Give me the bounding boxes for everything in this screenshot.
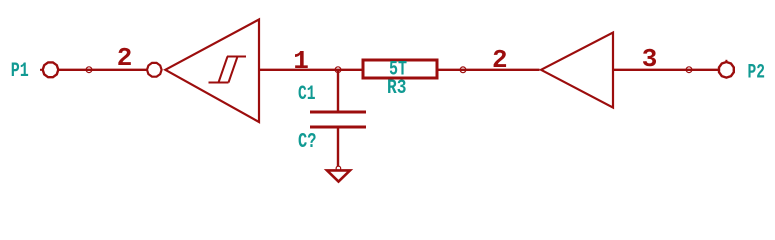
schmitt inverter U1 triangle: [165, 20, 259, 123]
svg-text:2: 2: [492, 45, 508, 75]
svg-text:R3: R3: [387, 77, 407, 100]
pin end circle on wire: [86, 67, 92, 73]
pin end circle before P2: [686, 67, 692, 73]
capacitor C top plate: [310, 111, 366, 114]
svg-text:C?: C?: [298, 131, 317, 154]
inverter bubble of U1: [147, 63, 162, 77]
svg-text:C1: C1: [298, 83, 316, 106]
ground pin circle: [336, 166, 341, 171]
svg-text:3: 3: [642, 44, 658, 74]
port P1 circle: [43, 62, 59, 77]
resistor R3 body: [363, 60, 437, 78]
port P2 circle: [719, 62, 734, 78]
ground symbol triangle: [327, 170, 350, 181]
wire resistor to gate U2: [439, 69, 540, 71]
capacitor C bottom plate: [310, 126, 366, 129]
svg-text:P2: P2: [748, 62, 766, 85]
wire capacitor to ground: [337, 129, 339, 167]
wire P1 to gate U1: [59, 69, 147, 71]
port P2 top tick: [725, 60, 727, 63]
schmitt hysteresis symbol: [209, 57, 247, 83]
port P1 left tick: [40, 69, 43, 71]
svg-text:1: 1: [293, 46, 309, 76]
wire gate U1 output to resistor R3: [259, 69, 362, 71]
wire gate U2 output to P2: [613, 69, 719, 71]
svg-text:2: 2: [117, 43, 133, 73]
pin end circle after resistor: [460, 67, 466, 73]
buffer U2 triangle: [541, 33, 613, 108]
svg-text:P1: P1: [11, 60, 29, 83]
junction node circle: [335, 67, 341, 73]
wire junction down to capacitor: [337, 70, 339, 111]
